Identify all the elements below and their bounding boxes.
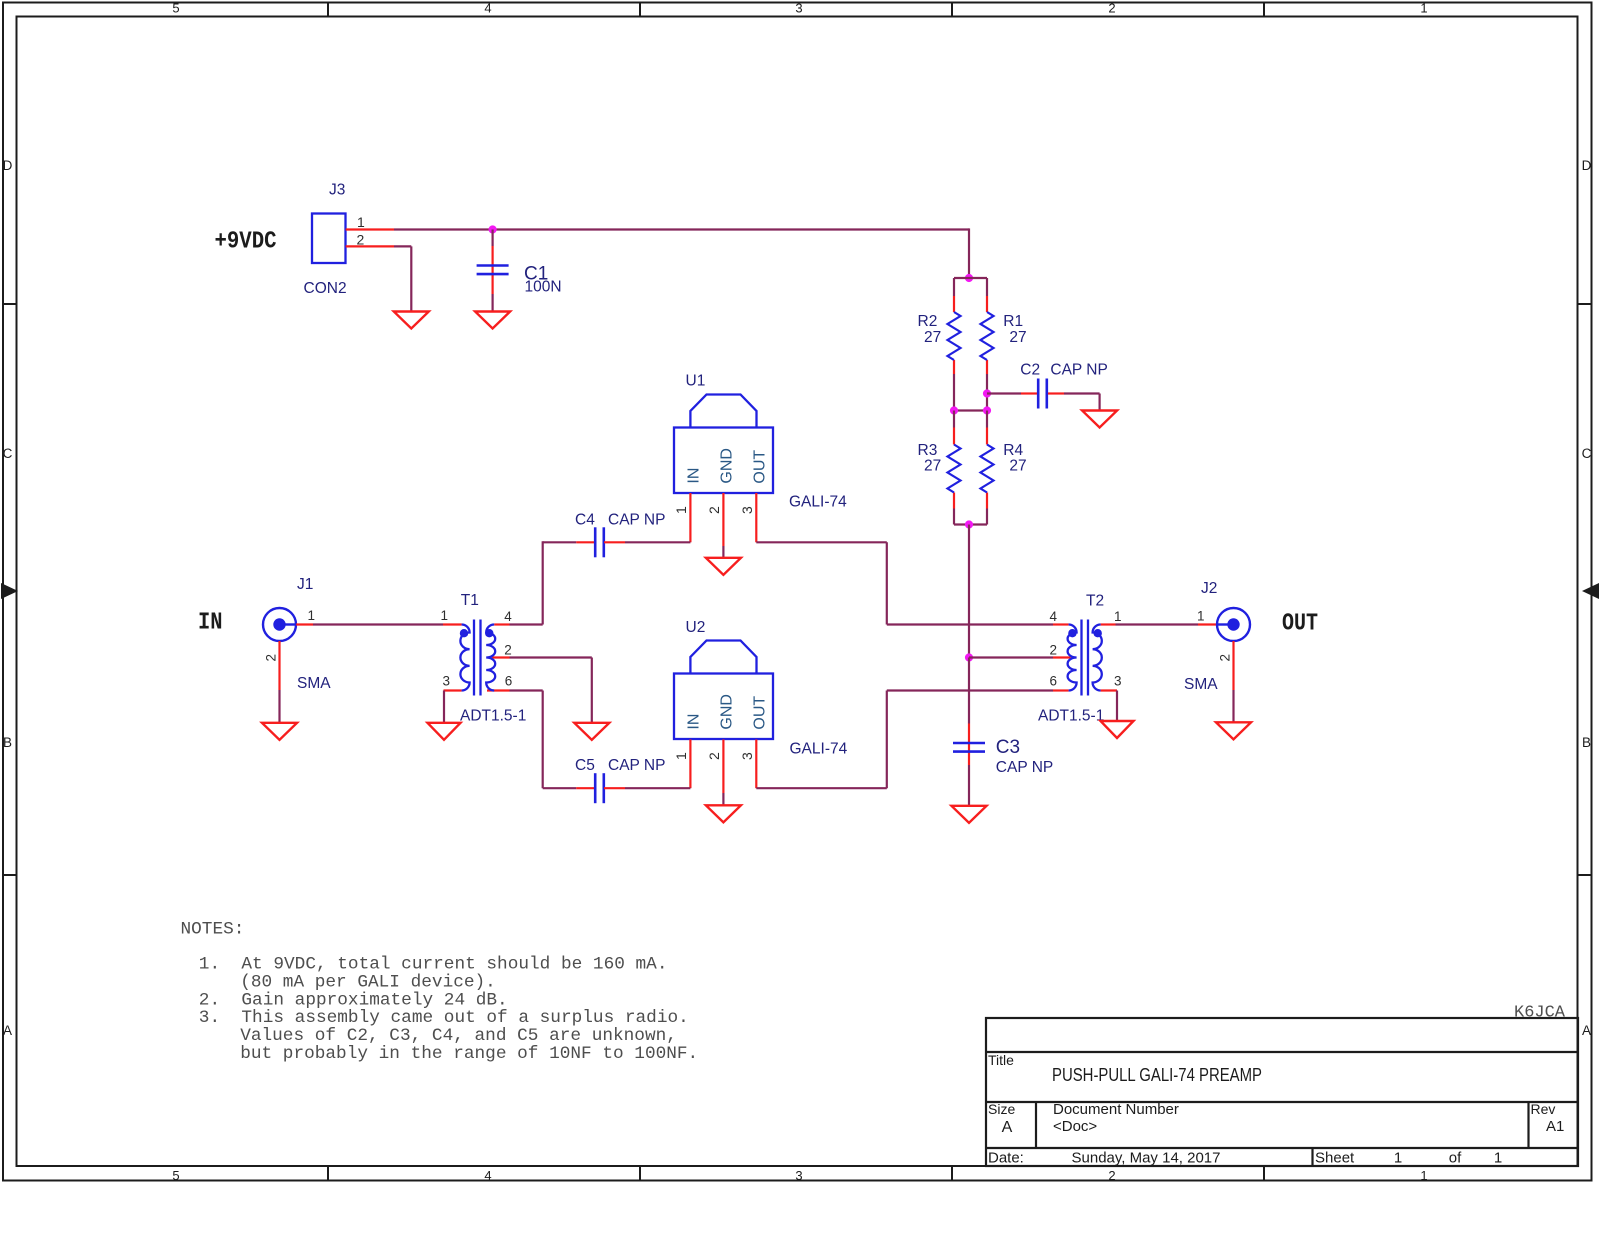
J2 pin 1 number [1197, 609, 1205, 624]
ground at T2 pin3 [1101, 721, 1134, 738]
J3 pin 1 number [357, 214, 365, 230]
resistor R4 [981, 445, 994, 493]
svg-text:IN: IN [685, 468, 702, 484]
T1 pin 4 number [504, 609, 512, 624]
C4 left pin [576, 541, 595, 543]
svg-text:IN: IN [685, 714, 702, 730]
capacitor C5 [595, 773, 604, 803]
wire C4 to U1 pin1 [625, 541, 690, 543]
svg-text:1: 1 [1394, 1150, 1402, 1167]
wire J3 pin2 to ground [394, 246, 411, 311]
left fiducial arrow [1, 583, 18, 599]
J2 refdes label [1201, 580, 1217, 597]
svg-text:1: 1 [1114, 609, 1122, 624]
wire T1 pin2 to ground [510, 658, 592, 723]
C5 value CAP NP [608, 757, 665, 774]
svg-text:3: 3 [739, 752, 755, 760]
J2 pin 2 number [1218, 654, 1233, 662]
U2 pin 1 wire [689, 740, 691, 789]
U1 pin 3 wire [755, 493, 757, 542]
right fiducial arrow [1582, 583, 1599, 599]
T1 pin 6 number [505, 674, 513, 689]
title block text [988, 1052, 1564, 1167]
T2 pin 2 number [1049, 643, 1057, 658]
transformer T1 [460, 620, 495, 696]
capacitor C1 pins [492, 230, 494, 295]
svg-text:3: 3 [739, 506, 755, 514]
svg-text:CAP NP: CAP NP [608, 757, 665, 774]
T1 value ADT1.5-1 [460, 708, 526, 725]
svg-text:Title: Title [988, 1052, 1014, 1068]
svg-text:D: D [1582, 158, 1592, 173]
wire J1 to T1 pin1 [313, 623, 443, 625]
svg-text:GALI-74: GALI-74 [789, 494, 847, 511]
T2 pin 1 stub [1101, 623, 1116, 625]
ground at T1 pin2 [574, 723, 609, 740]
op-amp U2 body [674, 641, 773, 740]
svg-text:R2: R2 [918, 313, 938, 330]
svg-text:ADT1.5-1: ADT1.5-1 [460, 708, 526, 725]
svg-text:Rev: Rev [1531, 1101, 1556, 1117]
capacitor C2 [1038, 379, 1047, 409]
svg-text:2: 2 [706, 752, 722, 760]
svg-text:1: 1 [308, 608, 316, 623]
J2 value SMA [1184, 676, 1218, 693]
svg-text:R4: R4 [1003, 442, 1023, 459]
svg-text:27: 27 [1009, 329, 1026, 346]
J1 pin 1 number [308, 608, 316, 623]
svg-text:A: A [3, 1023, 12, 1038]
R2 pin wires [953, 278, 955, 411]
U2 value GALI-74 [790, 741, 848, 758]
svg-text:3: 3 [1114, 674, 1122, 689]
U1 pin name IN [685, 468, 702, 484]
svg-text:ADT1.5-1: ADT1.5-1 [1038, 708, 1104, 725]
T1 refdes label [461, 592, 479, 609]
ground at J1 [262, 723, 297, 740]
wire C2 to ground [1064, 394, 1100, 411]
svg-text:T1: T1 [461, 592, 479, 609]
C5 refdes label [575, 757, 595, 774]
R3 value 27 [924, 458, 941, 475]
svg-text:A: A [1582, 1023, 1591, 1038]
J1 pin 2 wire [278, 641, 280, 723]
R4 refdes label [1003, 442, 1023, 459]
T2 pin 6 stub [1053, 689, 1069, 691]
R1 pin wires [986, 278, 988, 411]
svg-text:2: 2 [1049, 643, 1057, 658]
C4 refdes label [575, 512, 595, 529]
J3 pin 2 number [357, 232, 365, 248]
node R bottom junction [965, 520, 973, 528]
svg-text:C: C [3, 446, 13, 461]
U2 pin 2 number [706, 752, 722, 760]
svg-text:GND: GND [718, 694, 735, 730]
svg-text:OUT: OUT [1282, 611, 1318, 638]
U1 pin 3 number [739, 506, 755, 514]
connector J3 [312, 214, 346, 264]
ground at U2 pin2 [706, 805, 741, 822]
R2 refdes label [918, 313, 938, 330]
capacitor C1 [477, 266, 509, 275]
T2 pin 6 number [1049, 674, 1057, 689]
resistor R1 [981, 312, 994, 360]
svg-text:A: A [1002, 1119, 1013, 1136]
svg-text:B: B [3, 735, 12, 750]
R1 value 27 [1009, 329, 1026, 346]
U1 pin 1 wire [689, 493, 691, 542]
wire bias to T2 pin2 [969, 656, 1053, 658]
svg-text:GND: GND [718, 448, 735, 484]
node C1 tap junction [489, 225, 497, 233]
svg-text:4: 4 [1049, 609, 1057, 624]
svg-text:2: 2 [1108, 1, 1115, 16]
T1 pin 6 stub [487, 689, 510, 691]
C1 refdes label [524, 264, 548, 285]
U1 pin 2 number [706, 506, 722, 514]
J3 refdes label [329, 182, 345, 199]
R3 refdes label [918, 442, 938, 459]
J3 pin 2 stub [346, 245, 394, 247]
T1 pin 2 stub [492, 656, 510, 658]
U2 pin 3 wire [755, 740, 757, 789]
svg-text:2: 2 [1108, 1168, 1115, 1183]
svg-text:D: D [3, 158, 13, 173]
svg-text:CAP NP: CAP NP [608, 512, 665, 529]
ground at J3 pin2 [394, 312, 429, 329]
svg-text:2: 2 [504, 643, 512, 658]
U2 pin 1 number [673, 752, 689, 760]
notes text [181, 920, 699, 1065]
ground at C2 [1082, 411, 1117, 428]
capacitor C3 [953, 743, 985, 752]
C2 right pin [1048, 392, 1064, 394]
C3 value CAP NP [996, 759, 1053, 776]
svg-text:J3: J3 [329, 182, 345, 199]
U1 pin 1 number [673, 506, 689, 514]
svg-text:2: 2 [264, 654, 279, 662]
T2 pin 4 number [1049, 609, 1057, 624]
svg-text:Sunday, May 14, 2017: Sunday, May 14, 2017 [1072, 1150, 1221, 1167]
svg-text:OUT: OUT [751, 696, 768, 730]
connector J2 [1217, 608, 1250, 641]
T1 pin 2 number [504, 643, 512, 658]
svg-text:U1: U1 [686, 373, 706, 390]
node R1/R2 top junction [965, 274, 973, 282]
svg-text:U2: U2 [686, 619, 706, 636]
svg-text:K6JCA: K6JCA [1514, 1004, 1566, 1023]
svg-text:R3: R3 [918, 442, 938, 459]
svg-text:27: 27 [924, 329, 941, 346]
T1 pin 3 stub [444, 689, 462, 691]
R4 pin wires [986, 411, 988, 525]
svg-text:4: 4 [484, 1168, 491, 1183]
J3 pin 1 stub [346, 228, 394, 230]
svg-text:Sheet: Sheet [1315, 1150, 1355, 1167]
svg-text:1: 1 [673, 752, 689, 760]
svg-text:2: 2 [1218, 654, 1233, 662]
J3 value CON2 [304, 280, 347, 297]
wire +9V rail [394, 228, 969, 278]
svg-text:1: 1 [440, 608, 448, 623]
svg-text:4: 4 [484, 1, 491, 16]
C1 value 100N [525, 279, 562, 296]
T2 value ADT1.5-1 [1038, 708, 1104, 725]
svg-text:C4: C4 [575, 512, 595, 529]
transformer T2 [1068, 620, 1102, 696]
svg-text:100N: 100N [525, 279, 562, 296]
svg-text:CON2: CON2 [304, 280, 347, 297]
J1 pin 1 stub [296, 623, 313, 625]
svg-text:R1: R1 [1003, 313, 1023, 330]
U2 refdes label [686, 619, 706, 636]
svg-text:1: 1 [673, 506, 689, 514]
title block grid [986, 1018, 1578, 1166]
U2 pin name IN [685, 714, 702, 730]
svg-text:1: 1 [1420, 1, 1427, 16]
wire C1 to ground [492, 294, 494, 312]
wire T1 pin4 to C4 [543, 541, 577, 624]
U1 refdes label [686, 373, 706, 390]
wire R mid connector [954, 409, 987, 411]
C4 right pin [604, 541, 625, 543]
T2 refdes label [1086, 593, 1104, 610]
ground at C3 [952, 806, 987, 823]
svg-text:OUT: OUT [751, 450, 768, 484]
wire R top connector [954, 277, 987, 279]
R1 refdes label [1003, 313, 1023, 330]
U2 pin name OUT [751, 696, 768, 730]
T1 pin 4 stub [494, 623, 509, 625]
svg-text:6: 6 [1049, 674, 1057, 689]
IN label [198, 610, 223, 637]
svg-text:Document Number: Document Number [1053, 1101, 1179, 1118]
T2 pin 2 stub [1053, 656, 1071, 658]
C2 refdes label [1020, 362, 1040, 379]
J2 pin 1 stub [1198, 623, 1217, 625]
ground at U1 pin2 [706, 558, 741, 575]
svg-text:NOTES:: NOTES: [181, 920, 245, 940]
T2 pin 3 stub [1101, 689, 1117, 691]
resistor R3 [948, 445, 961, 493]
wire T2 pin1 to J2 [1116, 623, 1199, 625]
T1 pin 1 stub [443, 623, 462, 625]
svg-text:<Doc>: <Doc> [1053, 1118, 1097, 1135]
wire U1 out to T2 pin4 [756, 542, 1053, 624]
wire R bottom connector [954, 523, 987, 525]
svg-text:CAP NP: CAP NP [996, 759, 1053, 776]
node T2 center-tap junction [965, 653, 973, 661]
svg-text:2: 2 [706, 506, 722, 514]
U2 pin 3 number [739, 752, 755, 760]
U1 value GALI-74 [789, 494, 847, 511]
svg-text:T2: T2 [1086, 593, 1104, 610]
J1 pin 2 number [264, 654, 279, 662]
ground at C1 [475, 312, 510, 329]
wire T1 pin3 to ground [443, 691, 445, 723]
wire U2 out to T2 pin6 [756, 691, 1053, 789]
svg-text:2: 2 [357, 232, 365, 248]
T1 pin 1 number [440, 608, 448, 623]
svg-text:C3: C3 [996, 737, 1020, 758]
C4 value CAP NP [608, 512, 665, 529]
svg-text:B: B [1582, 735, 1591, 750]
svg-text:SMA: SMA [1184, 676, 1218, 693]
capacitor C4 [595, 527, 604, 557]
wire bias to C3 [968, 658, 970, 724]
C5 right pin [604, 787, 625, 789]
svg-text:of: of [1449, 1150, 1462, 1167]
svg-text:J1: J1 [297, 576, 313, 593]
svg-text:3: 3 [795, 1, 802, 16]
T2 pin 1 number [1114, 609, 1122, 624]
J2 pin 2 wire [1232, 641, 1234, 722]
svg-text:1: 1 [1197, 609, 1205, 624]
svg-text:+9VDC: +9VDC [215, 229, 277, 256]
svg-text:A1: A1 [1546, 1118, 1564, 1135]
resistor R2 [948, 312, 961, 360]
R2 value 27 [924, 329, 941, 346]
C5 left pin [576, 787, 595, 789]
svg-text:3: 3 [442, 674, 450, 689]
capacitor C3 pins [968, 724, 970, 766]
connector J1 [263, 608, 296, 641]
svg-text:1: 1 [1494, 1150, 1502, 1167]
T2 pin 3 number [1114, 674, 1122, 689]
C2 value CAP NP [1050, 362, 1107, 379]
svg-text:5: 5 [172, 1, 179, 16]
K6JCA author text [1514, 1004, 1566, 1023]
svg-text:J2: J2 [1201, 580, 1217, 597]
+9VDC label [215, 229, 277, 256]
wire T1 pin6 to C5 [510, 691, 577, 789]
svg-text:CAP NP: CAP NP [1050, 362, 1107, 379]
svg-text:27: 27 [1009, 458, 1026, 475]
wire C2 tap [987, 392, 1037, 394]
J1 refdes label [297, 576, 313, 593]
node C2 tap junction [983, 389, 991, 397]
svg-text:1: 1 [1420, 1168, 1427, 1183]
ground at T1 pin3 [428, 723, 461, 740]
T2 pin 4 stub [1053, 623, 1069, 625]
U1 pin 2 wire [722, 493, 724, 558]
svg-text:but probably in the range of 1: but probably in the range of 10NF to 100… [240, 1044, 698, 1064]
svg-text:C2: C2 [1020, 362, 1040, 379]
svg-text:6: 6 [505, 674, 513, 689]
node R1/R4 junction [983, 406, 991, 414]
U2 pin name GND [718, 694, 735, 730]
R4 value 27 [1009, 458, 1026, 475]
OUT label [1282, 611, 1318, 638]
svg-text:Size: Size [988, 1101, 1015, 1117]
svg-text:4: 4 [504, 609, 512, 624]
svg-text:GALI-74: GALI-74 [790, 741, 848, 758]
svg-text:IN: IN [198, 610, 223, 637]
svg-text:1: 1 [357, 214, 365, 230]
svg-text:3: 3 [795, 1168, 802, 1183]
svg-text:PUSH-PULL GALI-74 PREAMP: PUSH-PULL GALI-74 PREAMP [1052, 1065, 1262, 1085]
R3 pin wires [953, 411, 955, 525]
wire bias rail down [968, 525, 970, 658]
ground at J2 [1216, 722, 1251, 739]
C3 refdes label [996, 737, 1020, 758]
wire T2 pin3 to ground [1116, 691, 1118, 722]
wire T1 pin4 feed [510, 623, 543, 625]
op-amp U1 body [674, 395, 773, 494]
svg-text:C5: C5 [575, 757, 595, 774]
svg-text:27: 27 [924, 458, 941, 475]
U1 pin name OUT [751, 450, 768, 484]
T1 pin 3 number [442, 674, 450, 689]
wire C5 to U2 pin1 [625, 787, 690, 789]
node R2/R3 junction [950, 406, 958, 414]
J1 value SMA [297, 675, 331, 692]
wire C3 to ground [968, 765, 970, 806]
U2 pin 2 wire [722, 740, 724, 806]
U1 pin name GND [718, 448, 735, 484]
svg-text:SMA: SMA [297, 675, 331, 692]
svg-text:5: 5 [172, 1168, 179, 1183]
svg-text:C: C [1582, 446, 1592, 461]
svg-text:Date:: Date: [988, 1150, 1024, 1167]
